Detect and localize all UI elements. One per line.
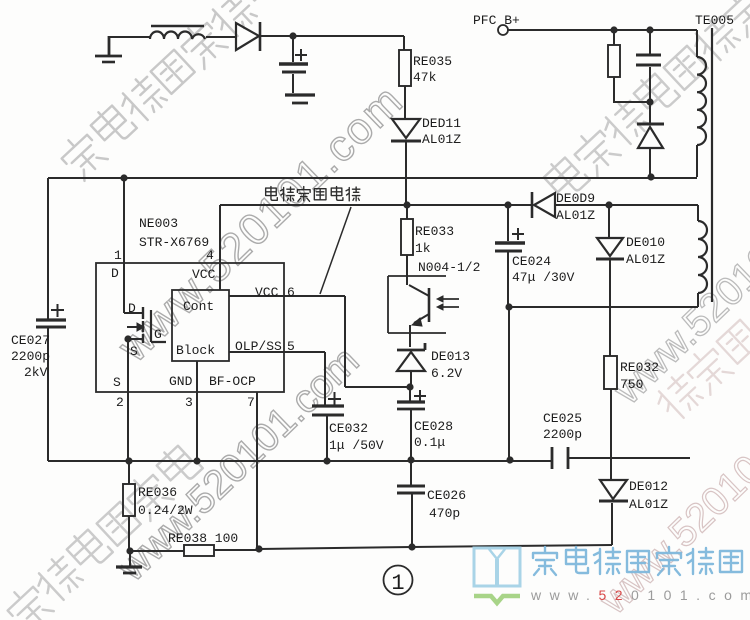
diode (input rectifier) — [236, 22, 260, 51]
svg-text:S: S — [130, 344, 138, 359]
VCC pin6 wire — [229, 296, 410, 387]
secondary winding — [509, 221, 707, 307]
svg-text:RE038 100: RE038 100 — [168, 531, 238, 546]
svg-text:CE024: CE024 — [512, 254, 551, 269]
transformer core — [711, 28, 713, 302]
svg-text:N004-1/2: N004-1/2 — [418, 260, 480, 275]
node — [403, 201, 410, 208]
svg-text:0.24/2W: 0.24/2W — [138, 503, 193, 518]
svg-text:1: 1 — [114, 248, 122, 263]
snubber resistor — [608, 30, 650, 102]
node — [408, 543, 415, 550]
svg-text:RE032: RE032 — [620, 360, 659, 375]
node — [406, 383, 413, 390]
svg-text:7: 7 — [247, 395, 255, 410]
svg-text:2kV: 2kV — [24, 365, 48, 380]
svg-text:DE013: DE013 — [431, 349, 470, 364]
svg-text:47μ /30V: 47μ /30V — [512, 270, 575, 285]
node — [505, 303, 512, 310]
svg-text:1: 1 — [391, 571, 404, 596]
svg-text:AL01Z: AL01Z — [626, 252, 665, 267]
svg-text:1k: 1k — [415, 241, 431, 256]
node — [610, 26, 617, 33]
logo Chinese text — [533, 547, 742, 575]
node (input cap junction) — [289, 32, 296, 39]
wire — [403, 36, 405, 50]
svg-text:RE036: RE036 — [138, 485, 177, 500]
node — [506, 456, 513, 463]
svg-text:750: 750 — [620, 377, 643, 392]
diode DE0D9 — [532, 192, 555, 218]
node — [323, 457, 330, 464]
inductor L (line filter) — [150, 26, 205, 39]
capacitor CE032 — [312, 392, 344, 461]
zener DE013 — [397, 343, 425, 387]
svg-text:0.1μ: 0.1μ — [414, 435, 445, 450]
svg-text:OLP/SS: OLP/SS — [235, 339, 282, 354]
svg-text:VCC: VCC — [192, 267, 216, 282]
svg-text:1μ /50V: 1μ /50V — [329, 438, 384, 453]
bottom return wire — [259, 545, 612, 549]
wire — [206, 36, 236, 38]
node — [646, 98, 653, 105]
wire CE024 to bus — [508, 307, 510, 461]
wire — [508, 30, 697, 57]
svg-text:DE012: DE012 — [629, 479, 668, 494]
svg-text:Cont: Cont — [183, 299, 214, 314]
IC NE003 outer box — [96, 263, 284, 392]
watermark: bottom-left Chinese — [2, 441, 205, 620]
svg-text:RE033: RE033 — [415, 224, 454, 239]
svg-text:VCC: VCC — [255, 285, 279, 300]
node — [646, 26, 653, 33]
svg-text:AL01Z: AL01Z — [422, 132, 461, 147]
watermark: right-top Chinese — [541, 0, 750, 204]
svg-text:NE003: NE003 — [139, 216, 178, 231]
circled 1 — [384, 566, 413, 595]
node (MOSFET source) — [124, 335, 131, 342]
pointer line (burned trace) — [320, 207, 351, 294]
capacitor CE026 — [397, 460, 425, 547]
svg-text:6.2V: 6.2V — [431, 366, 462, 381]
svg-text:47k: 47k — [413, 70, 437, 85]
node — [120, 174, 127, 181]
capacitor CE024 — [495, 205, 525, 307]
svg-text:4: 4 — [206, 248, 214, 263]
svg-text:CE028: CE028 — [414, 419, 453, 434]
snubber diode — [637, 102, 664, 177]
svg-text:S: S — [113, 375, 121, 390]
wire — [109, 36, 151, 38]
pin4 VCC wire — [219, 205, 221, 290]
pin3 GND wire — [196, 361, 198, 461]
diode DED11 — [391, 119, 421, 206]
transformer TE005 primary winding — [697, 57, 706, 177]
svg-text:3: 3 — [185, 395, 193, 410]
diode DE010 — [596, 205, 624, 356]
ground bottom-left — [116, 551, 142, 573]
IC inner box Cont Block — [172, 290, 229, 361]
capacitor CE027 — [36, 304, 66, 461]
node — [647, 173, 654, 180]
PFC B+ terminal — [498, 25, 508, 35]
svg-text:AL01Z: AL01Z — [629, 497, 668, 512]
capacitor CE028 — [397, 387, 426, 460]
wire — [404, 86, 406, 119]
watermark: top-left Chinese — [56, 0, 289, 182]
svg-text:2: 2 — [116, 395, 124, 410]
svg-text:CE026: CE026 — [427, 488, 466, 503]
svg-text:G: G — [154, 327, 162, 342]
ground top-left — [95, 36, 122, 62]
svg-text:GND: GND — [169, 374, 193, 389]
diode DE012 — [599, 480, 628, 545]
optocoupler N004 — [388, 276, 459, 347]
ground (below C-in) — [285, 95, 315, 103]
svg-text:5: 5 — [287, 339, 295, 354]
svg-text:STR-X6769: STR-X6769 — [139, 235, 209, 250]
pin2 source wire — [127, 339, 129, 461]
svg-text:DE0D9: DE0D9 — [556, 191, 595, 206]
VCC line — [220, 205, 698, 221]
svg-text:6: 6 — [287, 285, 295, 300]
node — [126, 547, 133, 554]
watermark: Chinese right pink — [651, 315, 750, 424]
annotation Chinese: burned trace note — [266, 187, 360, 202]
main bottom bus — [48, 460, 552, 462]
capacitor C-in — [279, 36, 308, 93]
svg-text:PFC B+: PFC B+ — [473, 13, 520, 28]
node — [605, 201, 612, 208]
svg-text:RE035: RE035 — [413, 54, 452, 69]
svg-text:CE027: CE027 — [11, 333, 50, 348]
svg-text:D: D — [128, 301, 136, 316]
pin5 OLP/SS wire to CE032 — [229, 352, 325, 395]
resistor RE032 — [604, 356, 617, 479]
svg-text:Block: Block — [176, 343, 215, 358]
node — [255, 545, 262, 552]
node — [193, 457, 200, 464]
resistor RE038 — [130, 545, 259, 556]
svg-text:CE032: CE032 — [329, 421, 368, 436]
MOSFET — [127, 307, 166, 343]
wire — [260, 35, 404, 37]
svg-text:www.520101.com: www.520101.com — [530, 587, 750, 603]
resistor RE033 — [401, 205, 413, 285]
node — [407, 456, 414, 463]
resistor RE035 — [399, 50, 411, 86]
svg-text:BF-OCP: BF-OCP — [209, 374, 256, 389]
left rail wire — [47, 178, 49, 319]
top bus wire — [48, 177, 697, 179]
resistor RE036 — [123, 461, 135, 551]
svg-text:AL01Z: AL01Z — [556, 208, 595, 223]
svg-text:470p: 470p — [429, 506, 460, 521]
snubber capacitor — [636, 30, 661, 102]
svg-text:DED11: DED11 — [422, 116, 461, 131]
pin7 BF-OCP wire — [256, 392, 258, 549]
svg-text:CE025: CE025 — [543, 411, 582, 426]
node — [504, 201, 511, 208]
svg-text:D: D — [111, 266, 119, 281]
svg-text:DE010: DE010 — [626, 235, 665, 250]
capacitor CE025 (in line) — [552, 447, 690, 469]
svg-text:2200p: 2200p — [543, 427, 582, 442]
svg-text:TE005: TE005 — [695, 13, 734, 28]
pin1 wire + MOSFET drain — [124, 178, 142, 313]
svg-text:2200p: 2200p — [11, 349, 50, 364]
node — [125, 457, 132, 464]
logo book icon — [474, 548, 520, 603]
